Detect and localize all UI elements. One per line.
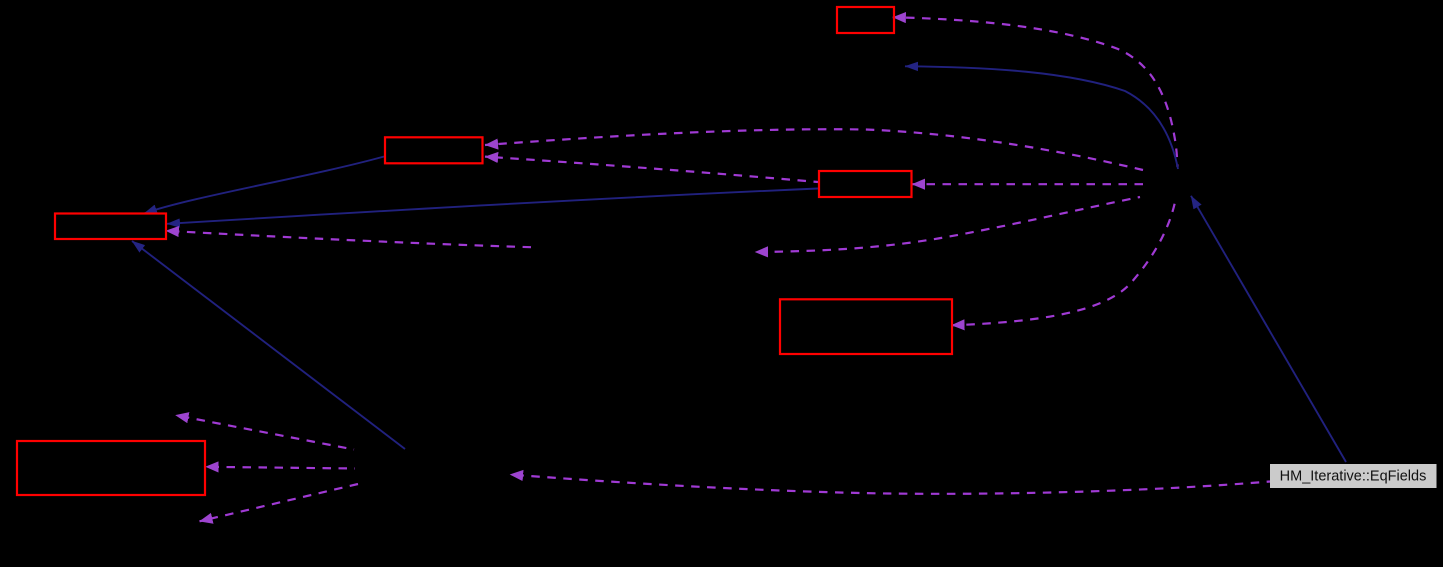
edge E9: hub node to invisible node middle (dashed purple) bbox=[755, 197, 1140, 252]
svg-text:HM_Iterative::EqFields: HM_Iterative::EqFields bbox=[1280, 469, 1427, 485]
edge E12: node N7 to hub node (solid blue) bbox=[1191, 196, 1346, 462]
node N5 red box large middle bbox=[780, 299, 952, 354]
node N1 red box top bbox=[837, 7, 894, 33]
edge E14: invisible node bottom to invisible node left (dashed purple) bbox=[176, 415, 355, 449]
edge E10: hub node to node N5 (dashed purple) bbox=[952, 197, 1177, 325]
node N6 red box bottom left bbox=[17, 441, 205, 495]
node N3 red box left bbox=[55, 214, 166, 240]
node N4 red box middle bbox=[819, 171, 912, 197]
edge E8: hub node to node N4 (dashed purple) bbox=[912, 183, 1143, 185]
edge E2: hub node to invisible node below N1 (solid blue) bbox=[905, 66, 1178, 169]
edge E13: invisible node bottom to node N3 bottom (solid blue) bbox=[132, 241, 405, 449]
edge E4: node N4 to node N2 lower (dashed purple) bbox=[485, 157, 818, 182]
edge E15: invisible node bottom to node N6 (dashed purple) bbox=[206, 467, 356, 469]
edge E1: hub node to node N1 (dashed purple) bbox=[893, 17, 1178, 167]
node N7 gray label HM_Iterative::EqFields bbox=[1270, 464, 1437, 488]
edge E11: node N7 to invisible node bottom (dashed purple) bbox=[510, 475, 1270, 494]
edge E5: node N2 to node N3 top (solid blue) bbox=[144, 157, 384, 214]
edge E16: invisible node bottom to invisible node bottom-left (dashed purple) bbox=[200, 484, 359, 521]
node N2 red box upper middle bbox=[385, 137, 483, 163]
edge E3: hub node to node N2 upper (dashed purple) bbox=[485, 129, 1143, 170]
edge E7: invisible node to node N3 right (dashed purple) bbox=[166, 231, 531, 247]
edge E6: node N4 to node N3 right (solid blue) bbox=[167, 189, 818, 224]
